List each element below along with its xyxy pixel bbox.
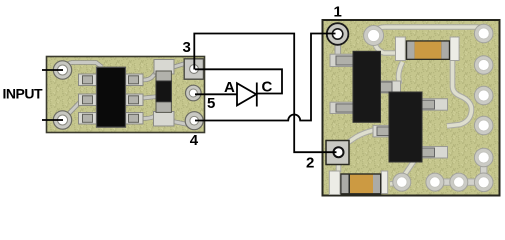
svg-text:4: 4 — [190, 132, 199, 149]
svg-text:5: 5 — [207, 95, 215, 112]
svg-text:2: 2 — [306, 155, 314, 172]
svg-text:A: A — [224, 79, 235, 96]
svg-text:C: C — [262, 79, 273, 96]
svg-text:1: 1 — [334, 3, 342, 20]
svg-text:3: 3 — [183, 39, 191, 56]
svg-text:INPUT: INPUT — [3, 86, 43, 102]
